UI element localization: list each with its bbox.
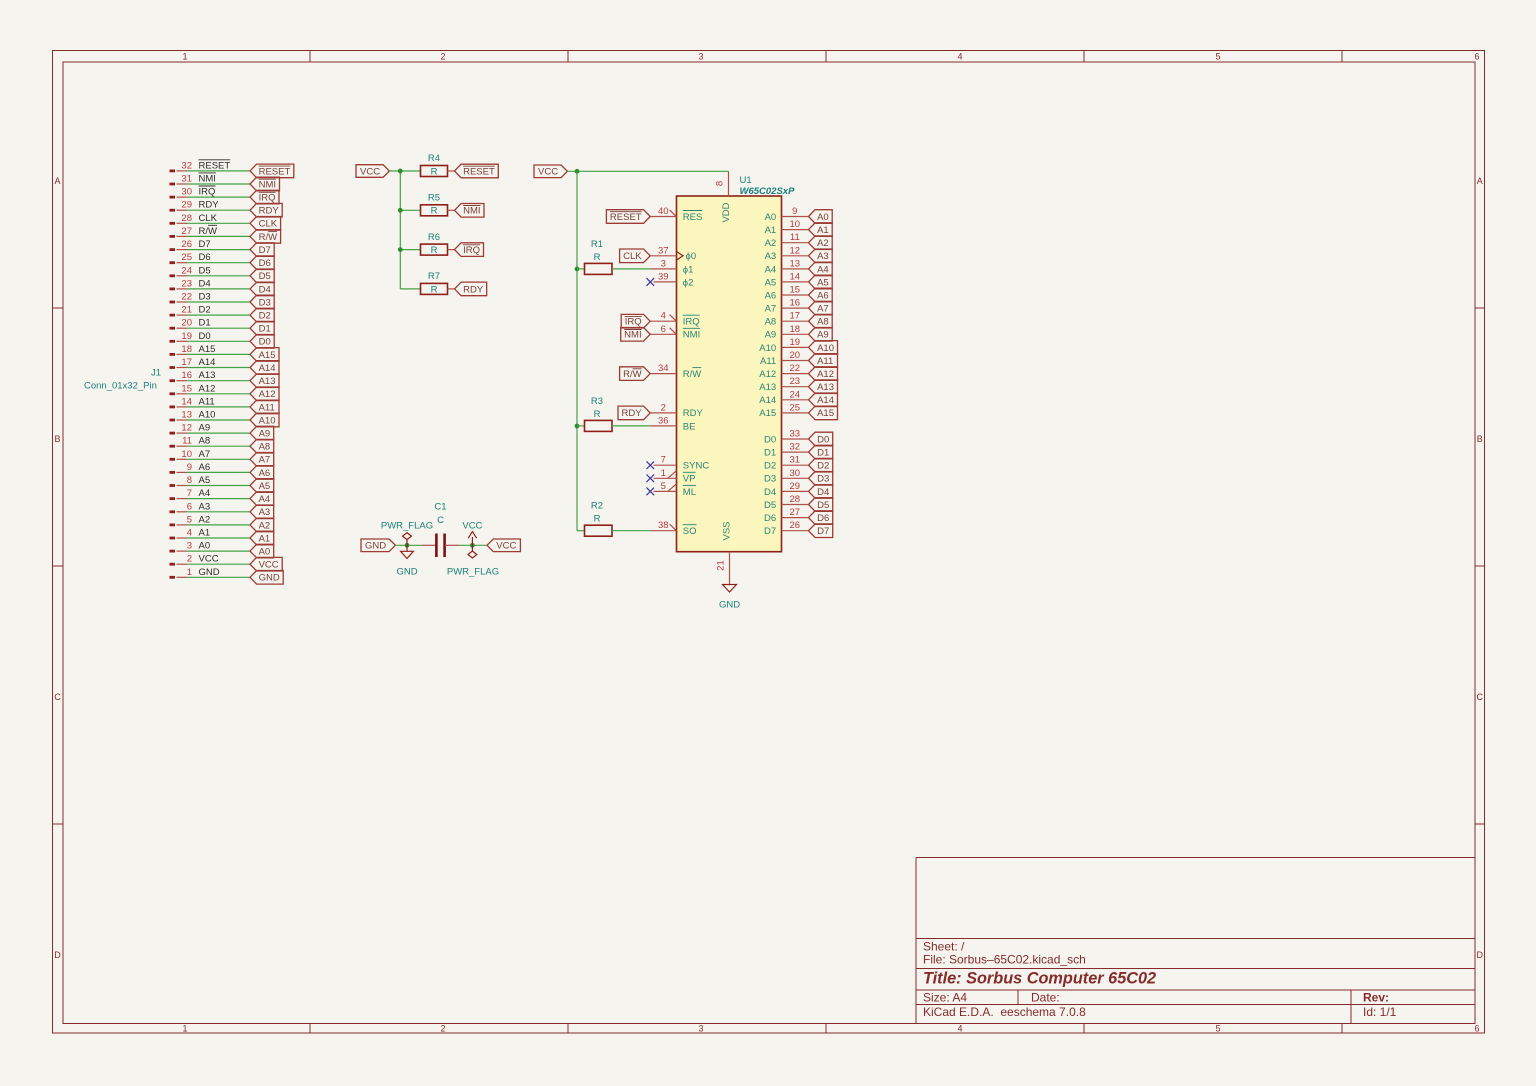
svg-text:A0: A0: [259, 547, 271, 558]
svg-text:5: 5: [1215, 52, 1220, 62]
svg-text:RDY: RDY: [259, 206, 280, 217]
svg-text:CLK: CLK: [199, 213, 218, 224]
svg-text:R: R: [431, 166, 438, 177]
svg-text:A6: A6: [259, 468, 271, 479]
svg-text:A4: A4: [259, 494, 271, 505]
svg-text:D6: D6: [817, 513, 829, 524]
svg-text:25: 25: [790, 402, 801, 413]
svg-text:4: 4: [957, 1024, 962, 1034]
svg-text:14: 14: [790, 271, 801, 282]
svg-text:R/W: R/W: [683, 369, 702, 380]
svg-text:A12: A12: [759, 369, 776, 380]
svg-text:D5: D5: [764, 500, 776, 511]
svg-text:21: 21: [181, 305, 192, 316]
svg-text:20: 20: [181, 318, 192, 329]
svg-text:NMI: NMI: [683, 330, 700, 341]
svg-text:A2: A2: [817, 238, 829, 249]
svg-text:Rev:: Rev:: [1363, 991, 1389, 1005]
svg-text:20: 20: [790, 350, 801, 361]
svg-text:D5: D5: [259, 271, 271, 282]
svg-text:8: 8: [187, 475, 192, 486]
svg-text:ϕ1: ϕ1: [683, 264, 694, 275]
svg-text:17: 17: [790, 311, 801, 322]
svg-text:U1: U1: [740, 175, 752, 186]
svg-text:25: 25: [181, 252, 192, 263]
svg-text:28: 28: [790, 494, 801, 505]
svg-text:38: 38: [658, 520, 669, 531]
svg-text:GND: GND: [199, 567, 220, 578]
svg-text:A1: A1: [199, 528, 211, 539]
svg-text:D4: D4: [199, 278, 211, 289]
svg-text:IRQ: IRQ: [625, 317, 642, 328]
svg-text:RESET: RESET: [199, 160, 231, 171]
svg-text:CLK: CLK: [259, 219, 278, 230]
svg-text:3: 3: [698, 1024, 703, 1034]
svg-text:ML: ML: [683, 487, 696, 498]
svg-text:15: 15: [181, 383, 192, 394]
svg-text:A: A: [54, 176, 60, 186]
svg-text:D3: D3: [259, 297, 271, 308]
svg-text:A10: A10: [199, 410, 216, 421]
svg-text:RDY: RDY: [622, 408, 643, 419]
svg-text:Conn_01x32_Pin: Conn_01x32_Pin: [84, 381, 157, 392]
svg-text:6: 6: [1474, 52, 1479, 62]
svg-text:NMI: NMI: [463, 206, 480, 217]
svg-text:7: 7: [187, 488, 192, 499]
svg-text:24: 24: [790, 389, 801, 400]
svg-text:D0: D0: [259, 337, 271, 348]
svg-text:RESET: RESET: [463, 166, 495, 177]
svg-text:2: 2: [661, 402, 666, 413]
svg-text:RES: RES: [683, 212, 703, 223]
svg-text:16: 16: [181, 370, 192, 381]
svg-text:B: B: [54, 434, 60, 444]
svg-text:A15: A15: [259, 350, 276, 361]
svg-text:3: 3: [698, 52, 703, 62]
svg-text:A5: A5: [259, 481, 271, 492]
svg-text:D5: D5: [199, 265, 211, 276]
svg-text:GND: GND: [259, 573, 280, 584]
svg-text:A4: A4: [817, 264, 829, 275]
svg-text:A3: A3: [259, 507, 271, 518]
svg-text:R2: R2: [591, 501, 603, 512]
svg-text:A14: A14: [759, 395, 776, 406]
svg-text:D1: D1: [817, 448, 829, 459]
svg-text:34: 34: [658, 363, 669, 374]
svg-text:10: 10: [790, 219, 801, 230]
svg-text:8: 8: [715, 181, 726, 186]
svg-text:33: 33: [790, 429, 801, 440]
svg-text:A3: A3: [199, 501, 211, 512]
svg-text:R/W: R/W: [623, 369, 642, 380]
svg-text:R: R: [431, 284, 438, 295]
svg-text:CLK: CLK: [623, 251, 642, 262]
svg-text:A8: A8: [259, 442, 271, 453]
svg-text:RDY: RDY: [683, 408, 704, 419]
svg-text:5: 5: [1215, 1024, 1220, 1034]
svg-text:D0: D0: [817, 434, 829, 445]
svg-text:A13: A13: [199, 370, 216, 381]
svg-text:B: B: [1477, 434, 1483, 444]
svg-text:D0: D0: [764, 434, 776, 445]
svg-text:C: C: [54, 692, 61, 702]
svg-text:18: 18: [181, 344, 192, 355]
svg-text:W65C02SxP: W65C02SxP: [740, 186, 796, 197]
svg-text:R: R: [594, 409, 601, 420]
svg-text:D3: D3: [817, 474, 829, 485]
svg-text:SYNC: SYNC: [683, 461, 710, 472]
svg-text:22: 22: [790, 363, 801, 374]
svg-text:A11: A11: [817, 356, 833, 367]
svg-text:23: 23: [181, 278, 192, 289]
svg-text:R: R: [431, 245, 438, 256]
svg-text:36: 36: [658, 415, 669, 426]
svg-text:30: 30: [790, 468, 801, 479]
svg-text:D2: D2: [199, 305, 211, 316]
svg-text:5: 5: [661, 481, 666, 492]
svg-text:NMI: NMI: [259, 179, 276, 190]
svg-text:D7: D7: [817, 526, 829, 537]
svg-text:D: D: [1476, 950, 1483, 960]
svg-text:RESET: RESET: [259, 166, 291, 177]
svg-text:R: R: [594, 514, 601, 525]
svg-text:30: 30: [181, 187, 192, 198]
svg-text:Date:: Date:: [1031, 991, 1060, 1005]
svg-text:R7: R7: [428, 271, 440, 282]
svg-text:GND: GND: [365, 541, 386, 552]
svg-text:A14: A14: [817, 395, 834, 406]
svg-text:A3: A3: [817, 251, 829, 262]
svg-text:D: D: [54, 950, 61, 960]
svg-text:A12: A12: [259, 389, 276, 400]
svg-text:D2: D2: [764, 461, 776, 472]
svg-text:A14: A14: [199, 357, 216, 368]
svg-text:12: 12: [181, 423, 192, 434]
svg-text:A4: A4: [199, 488, 211, 499]
svg-text:GND: GND: [396, 566, 417, 577]
svg-text:VSS: VSS: [722, 521, 733, 540]
svg-text:A15: A15: [759, 408, 776, 419]
svg-text:A8: A8: [765, 317, 777, 328]
svg-text:9: 9: [792, 206, 797, 217]
svg-text:32: 32: [181, 160, 192, 171]
svg-text:A5: A5: [817, 277, 829, 288]
svg-text:D3: D3: [764, 474, 776, 485]
svg-text:A6: A6: [199, 462, 211, 473]
svg-text:D7: D7: [259, 245, 271, 256]
svg-text:R4: R4: [428, 153, 440, 164]
svg-text:R/W: R/W: [199, 226, 218, 237]
svg-text:PWR_FLAG: PWR_FLAG: [381, 520, 433, 531]
svg-text:15: 15: [790, 285, 801, 296]
svg-text:4: 4: [957, 52, 962, 62]
svg-text:Title: Sorbus Computer 65C02: Title: Sorbus Computer 65C02: [923, 970, 1156, 988]
svg-text:24: 24: [181, 265, 192, 276]
svg-text:A14: A14: [259, 363, 276, 374]
svg-text:D6: D6: [764, 513, 776, 524]
svg-text:6: 6: [661, 324, 666, 335]
svg-text:9: 9: [187, 462, 192, 473]
svg-text:12: 12: [790, 245, 801, 256]
svg-text:29: 29: [790, 481, 801, 492]
svg-text:A2: A2: [259, 520, 271, 531]
svg-text:A4: A4: [765, 264, 777, 275]
svg-text:31: 31: [790, 455, 801, 466]
svg-text:A8: A8: [199, 436, 211, 447]
svg-text:A7: A7: [199, 449, 211, 460]
svg-text:IRQ: IRQ: [463, 245, 480, 256]
svg-text:D1: D1: [199, 318, 211, 329]
svg-text:IRQ: IRQ: [199, 187, 216, 198]
svg-text:13: 13: [181, 410, 192, 421]
svg-text:27: 27: [790, 507, 801, 518]
svg-text:NMI: NMI: [624, 330, 641, 341]
svg-text:VCC: VCC: [259, 560, 279, 571]
svg-text:19: 19: [790, 337, 801, 348]
svg-text:Sheet: /: Sheet: /: [923, 940, 965, 954]
svg-text:C1: C1: [434, 502, 446, 513]
svg-text:VCC: VCC: [538, 167, 558, 178]
svg-text:A5: A5: [199, 475, 211, 486]
svg-text:26: 26: [790, 520, 801, 531]
svg-text:7: 7: [661, 455, 666, 466]
svg-text:A3: A3: [765, 251, 777, 262]
svg-text:6: 6: [187, 501, 192, 512]
svg-text:R/W: R/W: [259, 232, 278, 243]
svg-text:D5: D5: [817, 500, 829, 511]
svg-text:C: C: [437, 515, 444, 526]
svg-text:VCC: VCC: [360, 166, 380, 177]
svg-text:D3: D3: [199, 292, 211, 303]
svg-text:A9: A9: [199, 423, 211, 434]
svg-text:VP: VP: [683, 474, 696, 485]
svg-text:1: 1: [187, 567, 192, 578]
svg-text:ϕ0: ϕ0: [686, 251, 697, 262]
svg-text:A1: A1: [817, 225, 829, 236]
svg-text:C: C: [1476, 692, 1483, 702]
svg-text:16: 16: [790, 298, 801, 309]
svg-text:27: 27: [181, 226, 192, 237]
svg-text:D1: D1: [764, 448, 776, 459]
svg-text:R1: R1: [591, 239, 603, 250]
svg-text:R5: R5: [428, 193, 440, 204]
svg-text:A7: A7: [765, 304, 777, 315]
svg-text:D7: D7: [199, 239, 211, 250]
svg-text:A12: A12: [817, 369, 834, 380]
svg-text:1: 1: [182, 52, 187, 62]
svg-text:D2: D2: [259, 311, 271, 322]
svg-text:26: 26: [181, 239, 192, 250]
svg-text:VCC: VCC: [462, 520, 482, 531]
svg-text:17: 17: [181, 357, 192, 368]
svg-text:D0: D0: [199, 331, 211, 342]
svg-text:A13: A13: [759, 382, 776, 393]
svg-text:A0: A0: [817, 212, 829, 223]
svg-text:D4: D4: [259, 284, 271, 295]
svg-text:A11: A11: [760, 356, 776, 367]
svg-text:39: 39: [658, 271, 669, 282]
svg-text:21: 21: [716, 560, 727, 571]
svg-text:D1: D1: [259, 324, 271, 335]
svg-text:R6: R6: [428, 232, 440, 243]
svg-text:11: 11: [790, 232, 800, 243]
svg-text:D4: D4: [817, 487, 829, 498]
svg-text:4: 4: [661, 311, 666, 322]
svg-text:A9: A9: [765, 330, 777, 341]
svg-text:10: 10: [181, 449, 192, 460]
svg-text:18: 18: [790, 324, 801, 335]
svg-text:6: 6: [1474, 1024, 1479, 1034]
svg-text:J1: J1: [151, 368, 161, 379]
svg-text:5: 5: [187, 514, 192, 525]
svg-text:ϕ2: ϕ2: [683, 277, 694, 288]
svg-text:1: 1: [182, 1024, 187, 1034]
svg-text:A0: A0: [199, 541, 211, 552]
svg-text:1: 1: [661, 468, 666, 479]
svg-text:A9: A9: [817, 330, 829, 341]
svg-text:VDD: VDD: [721, 202, 732, 222]
svg-text:BE: BE: [683, 421, 696, 432]
svg-text:D2: D2: [817, 461, 829, 472]
svg-text:PWR_FLAG: PWR_FLAG: [447, 566, 499, 577]
svg-text:4: 4: [187, 528, 192, 539]
svg-text:D7: D7: [764, 526, 776, 537]
svg-text:2: 2: [440, 1024, 445, 1034]
svg-text:32: 32: [790, 442, 801, 453]
svg-text:31: 31: [181, 174, 192, 185]
svg-text:A1: A1: [259, 533, 271, 544]
svg-text:2: 2: [187, 554, 192, 565]
svg-text:14: 14: [181, 396, 192, 407]
svg-text:GND: GND: [719, 600, 740, 611]
svg-text:A15: A15: [199, 344, 216, 355]
svg-text:RDY: RDY: [463, 284, 484, 295]
svg-text:A10: A10: [759, 343, 776, 354]
svg-text:Size: A4: Size: A4: [923, 991, 967, 1005]
svg-text:A6: A6: [817, 290, 829, 301]
svg-text:D4: D4: [764, 487, 776, 498]
svg-text:A11: A11: [259, 402, 275, 413]
svg-text:29: 29: [181, 200, 192, 211]
svg-text:KiCad E.D.A. eeschema 7.0.8: KiCad E.D.A. eeschema 7.0.8: [923, 1005, 1086, 1019]
svg-text:SO: SO: [683, 526, 697, 537]
svg-text:22: 22: [181, 292, 192, 303]
svg-text:23: 23: [790, 376, 801, 387]
svg-text:A2: A2: [765, 238, 777, 249]
svg-text:RESET: RESET: [610, 212, 642, 223]
svg-text:A1: A1: [765, 225, 777, 236]
svg-text:NMI: NMI: [199, 174, 216, 185]
svg-text:A7: A7: [817, 304, 829, 315]
svg-text:A13: A13: [259, 376, 276, 387]
svg-text:VCC: VCC: [496, 541, 516, 552]
svg-text:D6: D6: [259, 258, 271, 269]
svg-text:3: 3: [187, 541, 192, 552]
svg-text:A10: A10: [817, 343, 834, 354]
svg-text:A13: A13: [817, 382, 834, 393]
svg-text:File: Sorbus–65C02.kicad_sch: File: Sorbus–65C02.kicad_sch: [923, 953, 1086, 967]
svg-text:2: 2: [440, 52, 445, 62]
svg-text:37: 37: [658, 245, 669, 256]
svg-text:Id: 1/1: Id: 1/1: [1363, 1005, 1397, 1019]
svg-text:28: 28: [181, 213, 192, 224]
svg-text:3: 3: [661, 258, 666, 269]
svg-text:IRQ: IRQ: [683, 317, 700, 328]
svg-text:A0: A0: [765, 212, 777, 223]
svg-text:VCC: VCC: [199, 554, 219, 565]
svg-text:A6: A6: [765, 290, 777, 301]
svg-text:R: R: [594, 252, 601, 263]
svg-text:A7: A7: [259, 455, 271, 466]
svg-text:RDY: RDY: [199, 200, 220, 211]
svg-text:R3: R3: [591, 396, 603, 407]
svg-text:A5: A5: [765, 277, 777, 288]
svg-text:R: R: [431, 206, 438, 217]
svg-text:A8: A8: [817, 317, 829, 328]
svg-text:A10: A10: [259, 415, 276, 426]
svg-text:D6: D6: [199, 252, 211, 263]
svg-text:IRQ: IRQ: [259, 193, 276, 204]
svg-text:11: 11: [182, 436, 192, 447]
svg-text:40: 40: [658, 206, 669, 217]
svg-text:A: A: [1477, 176, 1483, 186]
svg-text:A15: A15: [817, 408, 834, 419]
svg-text:A12: A12: [199, 383, 216, 394]
svg-text:A11: A11: [199, 396, 215, 407]
svg-text:13: 13: [790, 258, 801, 269]
svg-text:A2: A2: [199, 514, 211, 525]
svg-text:19: 19: [181, 331, 192, 342]
svg-text:A9: A9: [259, 429, 271, 440]
